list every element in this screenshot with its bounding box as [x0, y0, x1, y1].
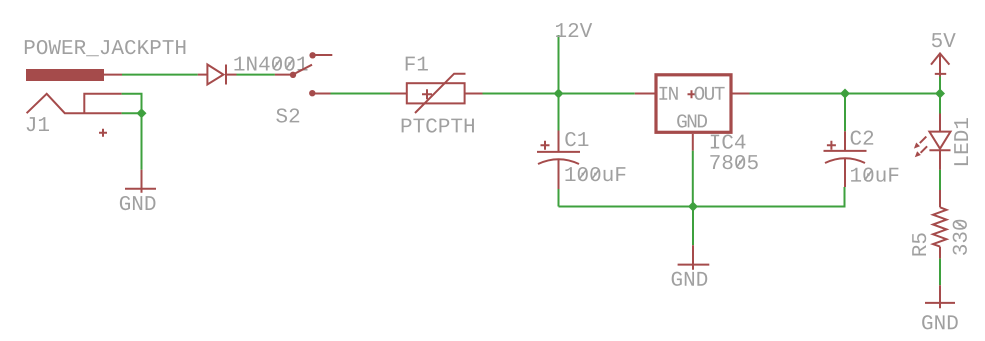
wire bottom rail: [559, 187, 845, 207]
resistor R5: [933, 190, 947, 259]
power jack J1 sleeve zigzag contact: [27, 94, 122, 113]
power jack J1 tip contact (filled bar): [26, 69, 104, 81]
wire resistor to GND: [939, 259, 941, 286]
label J1: [27, 117, 49, 131]
label IC4: [711, 134, 746, 148]
label GND (under J1): [120, 196, 156, 210]
label F1: [406, 57, 428, 71]
wire junction down to GND: [141, 113, 143, 170]
ground symbol GND (under IC): [678, 245, 710, 270]
wire junction down to LED: [939, 94, 941, 114]
supply 5V arrow: [931, 54, 949, 77]
diode 1N4001: [198, 65, 237, 85]
capacitor C2: [824, 131, 867, 187]
wire jack top prong to junction: [122, 94, 142, 113]
wire switch to fuse: [331, 93, 391, 95]
wire junction down to C2: [844, 94, 846, 132]
wire jack bottom prong to junction: [122, 112, 142, 114]
slashed-zero mark for 10uF: [865, 170, 873, 180]
wire fuse to IC (through 12V junction): [483, 93, 635, 95]
supply 12V: [558, 35, 560, 94]
capacitor C1: [537, 131, 580, 190]
label 7805: [710, 155, 757, 169]
wire jack tip to diode: [122, 74, 198, 76]
wire C1 to bottom rail: [558, 189, 560, 207]
label C2: [851, 131, 874, 145]
slashed-zero marks for 100uF: [579, 170, 599, 180]
node junction C2 top: [840, 89, 850, 99]
node junction bottom rail / IC ground: [688, 202, 698, 212]
node junction 12V/C1: [554, 89, 564, 99]
ground symbol GND (bottom right): [925, 285, 955, 308]
power jack J1 plus mark: [99, 129, 107, 137]
pin plus mark (red): [688, 90, 696, 98]
voltage regulator IC4 7805: [635, 75, 750, 151]
label 100uF: [565, 167, 625, 181]
wire junction down to C1: [558, 94, 560, 131]
label PTCPTH: [402, 118, 474, 132]
label 12V: [556, 23, 592, 37]
label S2: [276, 108, 299, 122]
power jack J1 tip pin: [104, 74, 122, 76]
slashed-zero mark for 330: [955, 221, 965, 229]
label 5V: [932, 33, 956, 47]
label POWER_JACKPTH (J1 name): [25, 40, 186, 56]
power jack J1 second prong (C shape): [84, 94, 121, 113]
node junction at J1 ground: [137, 108, 147, 118]
slashed-zero marks for 1N4001: [273, 59, 293, 69]
slashed-zero mark for 7805: [736, 158, 744, 168]
node junction 5V branch: [935, 89, 945, 99]
wire IC ground pin to bottom rail: [692, 151, 694, 207]
pin label OUT: [694, 87, 724, 100]
label GND (under IC): [672, 272, 708, 286]
wire IC out to right: [750, 93, 941, 95]
pin label IN: [659, 87, 677, 100]
label 10uF: [851, 168, 898, 182]
pin label GND: [677, 114, 707, 127]
switch S2: [275, 52, 332, 96]
LED LED1: [914, 114, 951, 170]
fuse F1 (PTC): [390, 74, 483, 113]
label LED1 (rotated): [954, 118, 968, 165]
label C1: [565, 132, 588, 146]
wire diode to switch: [237, 74, 275, 76]
ground symbol GND (under J1): [125, 170, 156, 193]
wire junction up to 5V supply: [939, 77, 941, 94]
label R5 (rotated): [912, 233, 926, 255]
wire LED to resistor: [939, 170, 941, 190]
label 1N4001: [234, 56, 307, 70]
wire junction down to GND: [692, 207, 694, 246]
label 330 (rotated): [953, 220, 967, 255]
label GND (bottom right): [922, 315, 958, 329]
